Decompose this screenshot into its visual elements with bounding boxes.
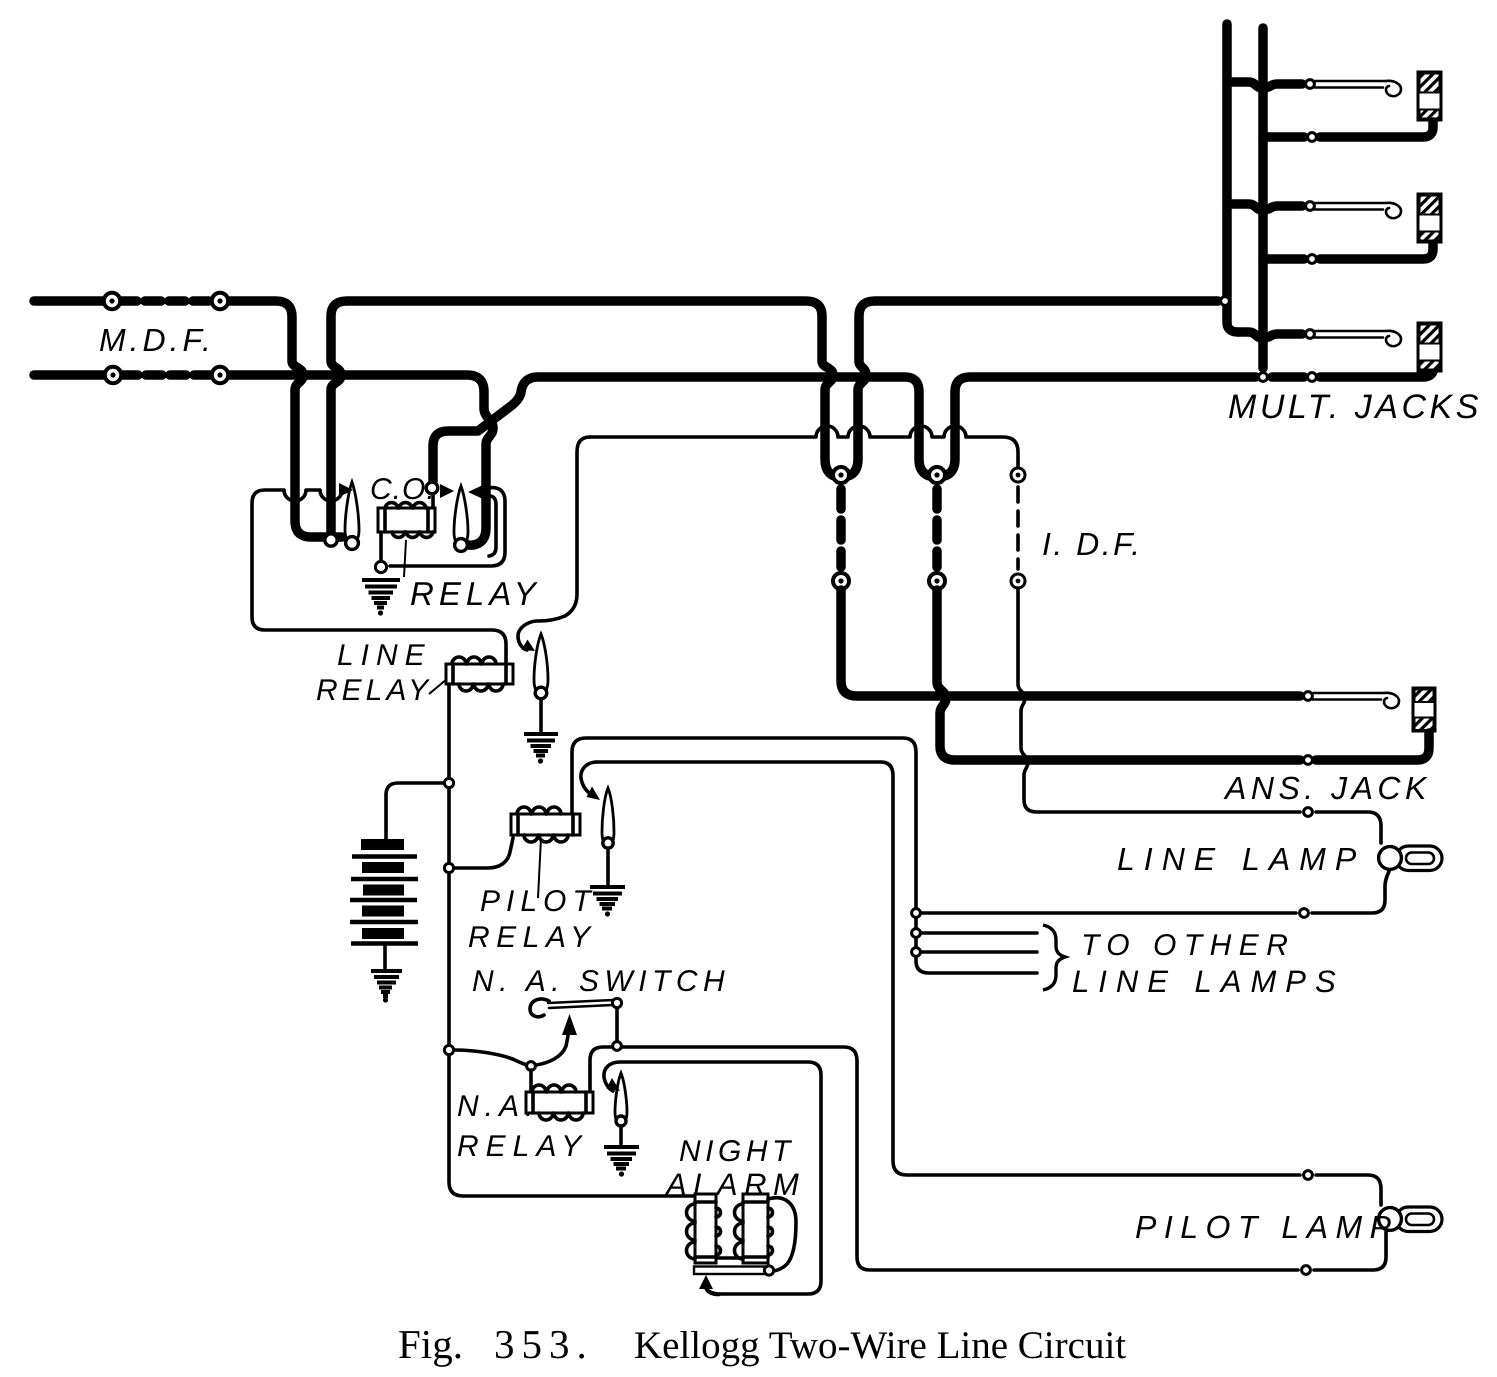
wire M.D.F. bottom line left segment xyxy=(34,375,493,545)
terminal M.D.F. top b xyxy=(212,293,228,309)
terminal I.D.F. line 3 bottom xyxy=(1011,574,1025,588)
wire N.A. node chain xyxy=(447,873,451,1046)
wire MULT jack 1 tip line xyxy=(1227,82,1302,88)
spring MULT jack 2 xyxy=(1315,203,1401,218)
svg-text:RELAY: RELAY xyxy=(468,921,597,954)
terminal M.D.F. bottom b xyxy=(212,367,228,383)
armature line relay xyxy=(534,634,548,699)
terminal I.D.F. line 2 xyxy=(929,573,945,589)
contact arrow line relay xyxy=(522,640,536,652)
wire line relay coil left lead down xyxy=(447,684,451,778)
svg-text:LINE: LINE xyxy=(337,639,432,672)
node ans jack sleeve circle xyxy=(1304,756,1313,765)
wire I.D.F. 2 to ANS jack sleeve xyxy=(937,590,1300,760)
node MULT bus right end xyxy=(1259,373,1268,382)
wire pilot lamp return right xyxy=(1314,1232,1386,1270)
node battery tap xyxy=(444,778,453,787)
wire I.D.F. line 1 dashed xyxy=(836,489,846,567)
terminal M.D.F. bottom a xyxy=(105,367,121,383)
jack block MULT 2 xyxy=(1418,194,1441,242)
wire I.D.F. line 2 dashed xyxy=(932,489,942,567)
contact hook pilot relay xyxy=(581,762,597,795)
node pilot lamp return mid xyxy=(1302,1266,1311,1275)
svg-text:NIGHT: NIGHT xyxy=(679,1135,795,1168)
wire MULT jack 2 sleeve xyxy=(1263,244,1433,259)
node line lamp bus 1 xyxy=(912,909,921,918)
svg-text:C.O.: C.O. xyxy=(370,473,436,506)
svg-text:TO OTHER: TO OTHER xyxy=(1081,929,1295,962)
contact C.O. right fixed stud xyxy=(426,482,438,494)
wire N.A. switch feed xyxy=(454,1050,527,1065)
relay coil PILOT xyxy=(511,807,580,842)
node C.O. ground terminal xyxy=(375,561,386,572)
svg-text:RELAY: RELAY xyxy=(457,1130,588,1163)
wire C.O. contact riser to I.D.F. line xyxy=(433,377,937,481)
wire C.O. armature loop to line relay xyxy=(252,490,506,664)
wire pilot coil feed xyxy=(454,838,513,868)
wire pilot contact to pilot lamp xyxy=(597,762,1300,1175)
wire C.O. coil left lead to ground xyxy=(379,532,383,560)
buzzer striker arrow xyxy=(699,1275,713,1289)
terminal I.D.F. line 1 xyxy=(833,573,849,589)
buzzer coil night alarm right xyxy=(735,1194,773,1263)
relay coil LINE RELAY xyxy=(446,657,513,691)
node line lamp top circle xyxy=(1304,808,1313,817)
svg-text:N. A. SWITCH: N. A. SWITCH xyxy=(472,965,730,998)
wire thin cross line to I.D.F. 3 xyxy=(590,426,1018,467)
wire buzzer striker stem xyxy=(706,1288,719,1295)
wire MULT bus left xyxy=(1227,24,1238,332)
node MULT jack 1 sleeve circle xyxy=(1308,133,1317,142)
svg-text:353.: 353. xyxy=(494,1321,594,1367)
node I.D.F. U1 terminal xyxy=(833,467,849,483)
contact arrow C.O. right outer xyxy=(468,485,483,499)
wire stub to other line lamps 1 xyxy=(921,931,1037,935)
node MULT jack 1 tip circle xyxy=(1306,80,1315,89)
leader line line relay label xyxy=(429,679,447,694)
spring MULT jack 1 xyxy=(1315,81,1401,96)
lamp PILOT LAMP xyxy=(1379,1207,1442,1232)
leader line C.O. relay label xyxy=(404,540,406,577)
svg-text:Kellogg Two-Wire Line Circuit: Kellogg Two-Wire Line Circuit xyxy=(634,1324,1126,1367)
contact arrow pilot relay xyxy=(587,787,601,801)
contact arrow C.O. right inner xyxy=(440,484,454,498)
wire left bus to night alarm xyxy=(449,1055,694,1196)
node MULT jack 3 tip circle xyxy=(1306,330,1315,339)
node MULT jack 3 sleeve circle xyxy=(1308,373,1317,382)
wire I.D.F. 1 to ANS jack tip xyxy=(841,590,1300,696)
contact arrow N.A. relay xyxy=(607,1078,621,1091)
node N.A. switch branch xyxy=(527,1062,536,1071)
svg-text:PILOT LAMP: PILOT LAMP xyxy=(1135,1209,1399,1245)
svg-text:N.A.: N.A. xyxy=(457,1090,539,1123)
wire battery bottom stem xyxy=(383,946,387,968)
lamp LINE LAMP xyxy=(1379,846,1442,871)
ground battery xyxy=(371,971,402,1003)
relay coil C.O. xyxy=(378,503,435,538)
wire sleeve feed line to MULT jack 3 xyxy=(1272,360,1434,377)
ground line relay xyxy=(524,734,558,764)
node N.A. tap xyxy=(444,1045,453,1054)
svg-text:LINE LAMP: LINE LAMP xyxy=(1117,841,1365,877)
wire line lamp drop xyxy=(1316,812,1381,843)
contact arrow C.O. left xyxy=(339,483,353,497)
jack block ANS xyxy=(1413,688,1435,731)
wire line lamp return xyxy=(921,869,1390,913)
jack block MULT 3 xyxy=(1418,323,1441,371)
svg-text:RELAY: RELAY xyxy=(316,674,432,707)
armature C.O. left xyxy=(345,482,359,549)
wire battery stem xyxy=(386,783,444,839)
wire N.A. armature to ground xyxy=(619,1126,623,1144)
wire MULT bus right xyxy=(1258,28,1268,368)
spring ANS jack xyxy=(1313,693,1399,708)
wire M.D.F. top line left segment xyxy=(34,301,342,537)
leader line pilot relay label xyxy=(538,838,541,898)
wire pilot lamp drop xyxy=(1316,1175,1381,1205)
svg-text:MULT. JACKS: MULT. JACKS xyxy=(1228,388,1482,426)
armature pilot relay xyxy=(602,788,614,848)
node line lamp bus 2 xyxy=(912,929,921,938)
contact hook N.A. relay xyxy=(604,1062,620,1091)
node MULT jack 2 tip circle xyxy=(1306,202,1315,211)
wire pilot coil right lead up and over xyxy=(572,738,916,908)
wire I.D.F. second pair up to ANS feed line xyxy=(937,377,1256,477)
wire MULT jack 2 tip line xyxy=(1227,204,1302,210)
wire N.A. switch to pilot lamp return xyxy=(615,1008,619,1041)
wire I.D.F. line 3 dashed xyxy=(1016,487,1020,569)
battery xyxy=(350,845,418,944)
wire top bus right segment to MULT jacks xyxy=(841,301,1218,477)
buzzer coil night alarm left xyxy=(687,1194,721,1263)
wire MULT jack 3 tip line xyxy=(1238,332,1302,338)
contact arrow N.A. switch xyxy=(562,1014,577,1035)
wire MULT jack 1 sleeve xyxy=(1263,122,1433,137)
jack block MULT 1 xyxy=(1418,72,1441,120)
svg-text:M.D.F.: M.D.F. xyxy=(99,322,215,358)
node pilot lamp top mid xyxy=(1304,1171,1313,1180)
ground N.A. relay xyxy=(604,1147,639,1177)
wire I.D.F. 3 to line lamp xyxy=(1018,588,1300,812)
contact C.O. left fixed stud xyxy=(325,534,337,546)
armature N.A. relay xyxy=(615,1073,627,1126)
wire line lamp return bus xyxy=(916,918,1037,973)
terminal M.D.F. top a xyxy=(104,293,120,309)
wire buzzer coils bottom link xyxy=(716,1256,743,1260)
spring MULT jack 3 xyxy=(1315,331,1401,346)
svg-text:LINE LAMPS: LINE LAMPS xyxy=(1072,964,1345,999)
node pilot tap xyxy=(444,863,453,872)
svg-text:RELAY: RELAY xyxy=(410,575,541,612)
svg-text:ANS. JACK: ANS. JACK xyxy=(1223,770,1431,806)
svg-text:Fig.: Fig. xyxy=(398,1321,463,1367)
buzzer armature bar xyxy=(694,1266,774,1275)
svg-text:I. D.F.: I. D.F. xyxy=(1042,526,1142,562)
wire C.O. coil right lead xyxy=(431,495,435,508)
node N.A. junction xyxy=(613,1042,622,1051)
node I.D.F. U2 terminal xyxy=(929,467,945,483)
wire C.O. second vertical from top bus xyxy=(331,301,841,535)
wire N.A. contact to buzzer xyxy=(621,1062,821,1294)
svg-text:ALARM: ALARM xyxy=(664,1167,805,1202)
ground C.O. relay xyxy=(362,580,400,616)
wire line relay contact riser xyxy=(518,437,590,650)
brace to other line lamps xyxy=(1043,925,1065,990)
wire N.A. coil right lead and pilot lamp return xyxy=(590,1047,1298,1270)
relay coil N.A. xyxy=(526,1085,593,1120)
node MULT jack 2 sleeve circle xyxy=(1308,255,1317,264)
node line lamp bus 3 xyxy=(912,948,921,957)
wire ANS jack sleeve to block xyxy=(1316,733,1429,760)
switch lever N.A. xyxy=(530,998,622,1016)
wire buzzer loop to armature xyxy=(768,1198,796,1271)
ground pilot relay xyxy=(590,887,625,917)
wire C.O. cup inner side xyxy=(489,496,496,556)
wire C.O. contact cup to ground bus xyxy=(390,488,505,566)
terminal I.D.F. line 3 top xyxy=(1011,468,1025,482)
node line lamp return mid xyxy=(1300,909,1309,918)
wire left bus line relay to pilot node xyxy=(447,788,451,864)
wire pilot armature to ground xyxy=(606,848,610,884)
node ans jack tip circle xyxy=(1304,692,1313,701)
node MULT bus joint xyxy=(1221,297,1230,306)
armature C.O. right xyxy=(454,486,468,551)
wire stub to other line lamps 2 xyxy=(921,950,1037,954)
wire N.A. switch arrow stem xyxy=(536,1036,568,1065)
wire N.A. relay coil left lead xyxy=(529,1070,533,1092)
wire line relay armature to ground xyxy=(539,699,543,731)
